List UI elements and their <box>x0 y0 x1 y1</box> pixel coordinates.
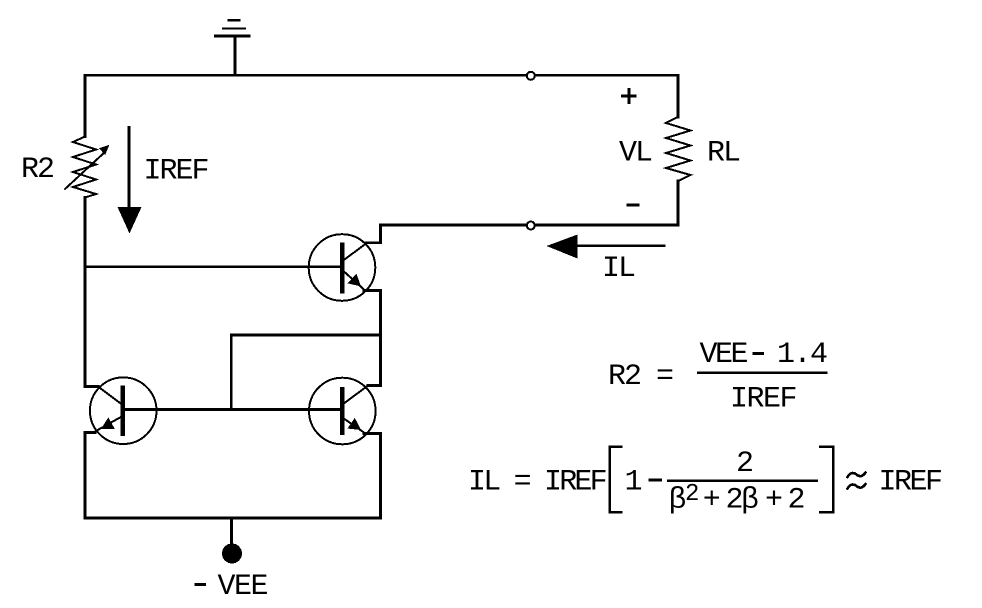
svg-text:VEE: VEE <box>218 570 268 604</box>
transistor Q3 (mirror, bottom right) <box>309 378 376 445</box>
wire left rail down from top <box>84 75 87 136</box>
wire VEE stem <box>230 518 233 544</box>
svg-text:R2 =: R2 = <box>608 360 673 394</box>
svg-text:IL = IREF: IL = IREF <box>468 466 606 500</box>
wire Q2 emitter jog <box>85 431 95 434</box>
svg-text:IREF: IREF <box>144 155 208 189</box>
wire base rail between mirror transistors <box>125 408 340 411</box>
wire bottom of load loop right of terminal <box>536 224 679 227</box>
wire feedback tap vertical down to base rail <box>230 335 233 410</box>
equation right bracket <box>820 447 833 513</box>
wire left rail R2 to collector jog <box>84 198 87 387</box>
svg-text:IREF: IREF <box>879 466 942 500</box>
wire left rail emitter to bottom rail <box>84 433 87 519</box>
label - (load polarity) <box>628 204 638 207</box>
wire base of output transistor <box>85 265 340 268</box>
wire RL bottom down <box>677 181 680 225</box>
wire bottom of load loop left of terminal <box>381 224 527 227</box>
wire bottom rail <box>85 517 381 520</box>
svg-text:1: 1 <box>625 466 643 500</box>
wire Q3 emitter jog <box>364 432 381 435</box>
transistor Q1 (output, top) <box>309 234 376 301</box>
transistor Q2 (mirror, bottom left) <box>90 377 157 444</box>
node terminal (open circle, top) <box>527 72 535 80</box>
svg-text:2: 2 <box>685 481 699 508</box>
node terminal (open circle, bottom) <box>527 222 535 230</box>
svg-text:RL: RL <box>707 137 740 171</box>
wire Q1 emitter down to Q3 collector <box>379 291 382 386</box>
wire Q3 collector jog <box>368 384 381 387</box>
wire top rail right of terminal <box>536 74 679 77</box>
wire right side down to RL <box>677 75 680 117</box>
equation fraction bar (VEE-1.4)/IREF <box>698 371 826 374</box>
resistor RL <box>666 117 691 181</box>
svg-text:2: 2 <box>736 447 754 481</box>
wire right rail emitter down to bottom rail <box>379 434 382 519</box>
svg-text:VEE: VEE <box>700 338 748 372</box>
equation minus sign in bracket <box>650 479 661 482</box>
svg-text:β: β <box>741 484 759 518</box>
wire Q1 collector up to load loop <box>379 225 382 243</box>
equation fraction bar 2/(b^2+2b+2) <box>668 479 817 482</box>
svg-text:IL: IL <box>602 252 635 286</box>
svg-text:IREF: IREF <box>730 383 796 417</box>
svg-text:+: + <box>765 484 783 518</box>
IL arrow <box>547 235 665 259</box>
svg-text:+: + <box>703 484 721 518</box>
label + (load polarity) <box>622 90 635 103</box>
IREF arrow <box>118 128 142 234</box>
resistor R2 (variable) <box>65 137 109 198</box>
wire top rail left of terminal <box>85 74 526 77</box>
svg-text:R2: R2 <box>21 153 53 187</box>
svg-text:2: 2 <box>788 484 806 518</box>
wire feedback tap horizontal <box>231 334 380 337</box>
wire Q1 emitter jog <box>364 289 381 292</box>
wire Q1 collector jog <box>366 242 381 245</box>
node -VEE terminal (filled dot) <box>222 544 242 564</box>
svg-text:β: β <box>669 484 687 518</box>
equation R2 = (VEE - 1.4)/IREF <box>608 338 827 417</box>
svg-text:1.4: 1.4 <box>777 338 827 372</box>
equation left bracket <box>610 447 622 513</box>
wire Q2 collector jog <box>85 385 98 388</box>
ground <box>214 20 251 74</box>
svg-text:VL: VL <box>619 137 652 171</box>
label - VEE <box>196 583 205 586</box>
equation IL = IREF[1 - 2/(b^2+2b+2)] ~ IREF <box>468 447 941 518</box>
